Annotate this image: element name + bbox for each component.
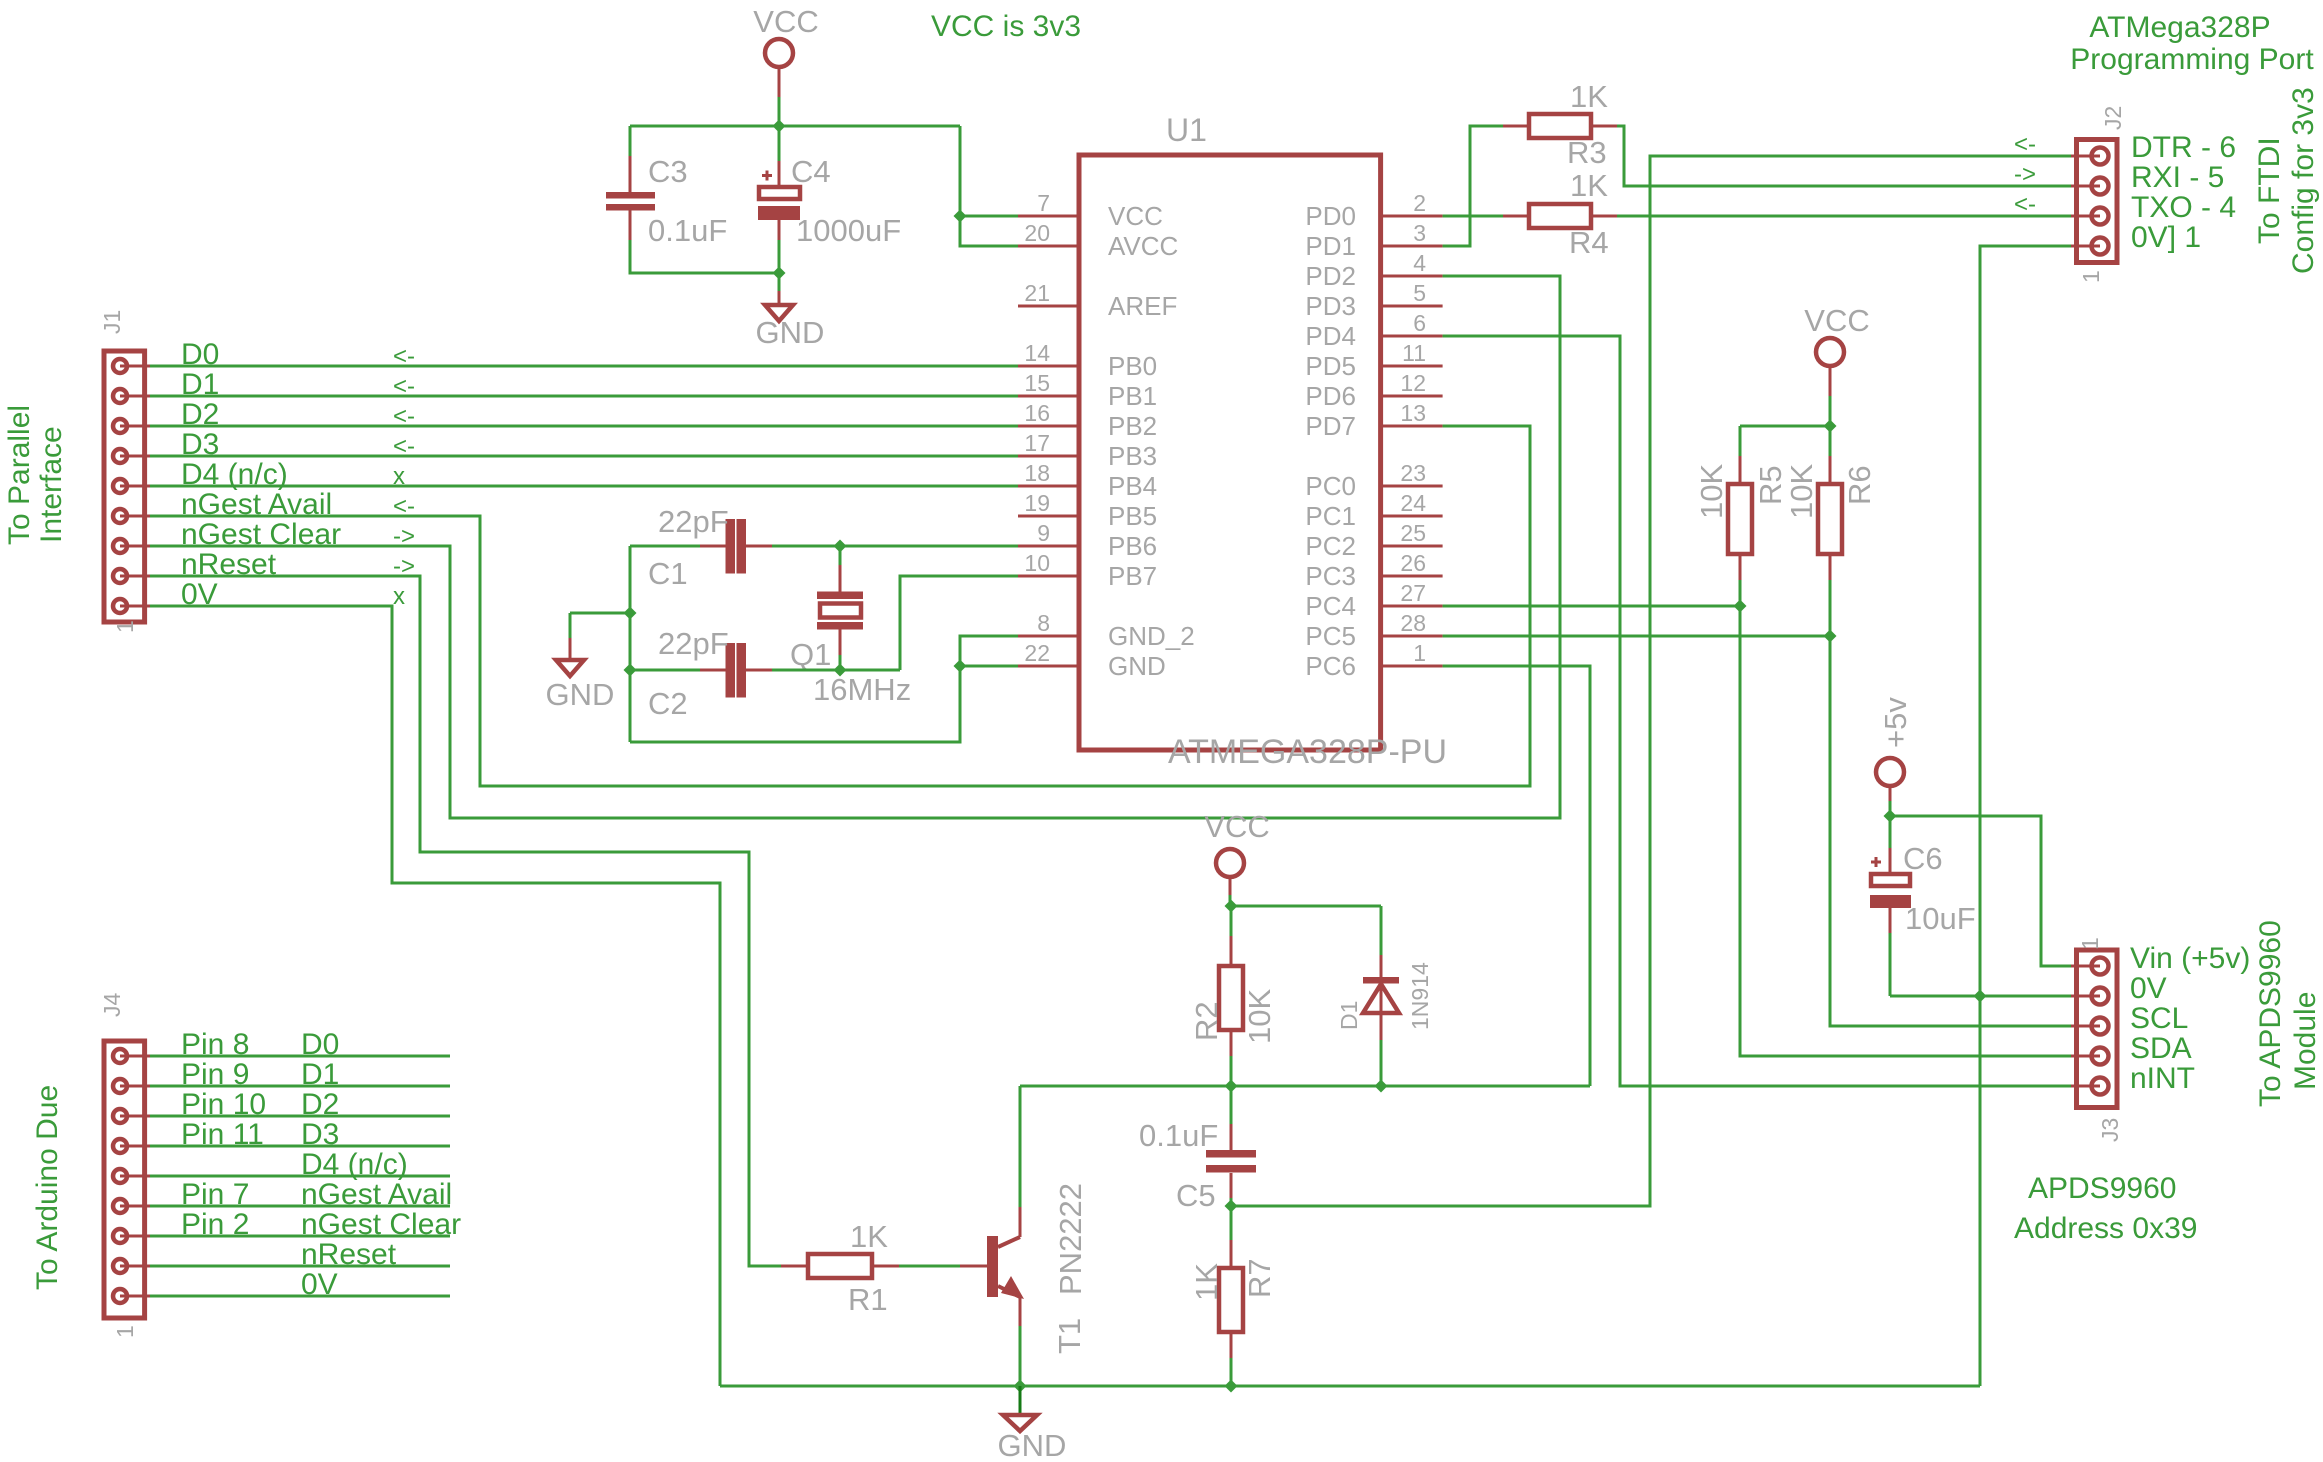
pin +5v stem	[1889, 786, 1892, 802]
IC U1 ATMEGA328P-PU body	[1079, 155, 1381, 750]
svg-text:VCC: VCC	[753, 4, 818, 39]
pin 15 PB1 stub	[1018, 395, 1079, 398]
svg-text:Pin 10: Pin 10	[181, 1088, 266, 1121]
svg-text:J3: J3	[2097, 1118, 2123, 1142]
wire D1 bottom	[1380, 1040, 1383, 1086]
svg-text:APDS9960: APDS9960	[2028, 1172, 2176, 1205]
pin 22 GND stub	[1018, 665, 1079, 668]
wire R2 bottom	[1230, 1056, 1233, 1086]
svg-text:10K: 10K	[1242, 989, 1277, 1044]
svg-text:10: 10	[1024, 550, 1050, 576]
node GND junction (top)	[773, 267, 786, 280]
pin D1 anode stub	[1380, 1013, 1383, 1040]
pin R2 top stub	[1230, 936, 1233, 966]
ground symbol GND (bottom)	[1019, 1386, 1022, 1414]
pin 8 GND_2 stub	[1018, 635, 1079, 638]
svg-text:10uF: 10uF	[1905, 901, 1976, 936]
svg-text:Interface: Interface	[35, 426, 68, 543]
wire J2 0V down to GND rail	[1980, 246, 2071, 1386]
svg-text:GND: GND	[1108, 651, 1166, 681]
pin R6 top stub	[1829, 456, 1832, 484]
pin VCC stem (bottom)	[1229, 877, 1232, 896]
svg-text:PC3: PC3	[1305, 561, 1356, 591]
wire VCC to AVCC pin 20	[960, 126, 1018, 246]
pin R1 right stub	[872, 1265, 899, 1268]
wire R4 to J2 TXO	[1617, 215, 2071, 218]
svg-text:16MHz: 16MHz	[813, 672, 911, 707]
svg-text:7: 7	[1037, 190, 1050, 216]
connector J1 pin nReset	[113, 569, 127, 583]
wire +5v to J3 Vin	[1890, 816, 2071, 966]
svg-text:PD6: PD6	[1305, 381, 1356, 411]
svg-text:RXI - 5: RXI - 5	[2131, 161, 2224, 194]
svg-text:0V: 0V	[2130, 972, 2167, 1005]
wire T1 emitter to GND	[1019, 1326, 1022, 1386]
svg-text:PC6: PC6	[1305, 651, 1356, 681]
svg-text:C1: C1	[648, 556, 688, 591]
node pin8/22 junction	[954, 660, 967, 673]
pin 5 PD3 stub	[1381, 305, 1443, 308]
connector J1 pin D1	[113, 389, 127, 403]
wire VCC stem (mid)	[1829, 396, 1832, 426]
pin 25 PC2 stub	[1381, 545, 1443, 548]
svg-text:J2: J2	[2100, 106, 2126, 130]
svg-text:10K: 10K	[1694, 464, 1729, 519]
svg-text:1: 1	[2078, 270, 2104, 283]
svg-text:GND_2: GND_2	[1108, 621, 1195, 651]
svg-text:21: 21	[1024, 280, 1050, 306]
pin R4 left stub	[1503, 215, 1529, 218]
node R5/R6 VCC junction	[1824, 420, 1837, 433]
svg-text:1000uF: 1000uF	[796, 213, 901, 248]
connector J1 pin D3	[113, 449, 127, 463]
pin R7 bottom stub	[1230, 1332, 1233, 1358]
wire net nGest Avail stub (J4)	[150, 1205, 450, 1208]
svg-text:PD3: PD3	[1305, 291, 1356, 321]
svg-text:5: 5	[1413, 280, 1426, 306]
svg-text:AVCC: AVCC	[1108, 231, 1178, 261]
pin R3 right stub	[1591, 125, 1617, 128]
connector J3 body	[2077, 950, 2118, 1108]
capacitor C1 22pF	[726, 519, 736, 574]
pin 13 PD7 stub	[1381, 425, 1443, 428]
connector J2 pin at y=246	[2092, 238, 2109, 255]
connector J1 pin D4 (n/c)	[113, 479, 127, 493]
pin 1 PC6 stub	[1381, 665, 1443, 668]
pin 18 PB4 stub	[1018, 485, 1079, 488]
svg-text:1: 1	[112, 620, 138, 633]
node SCL junction	[1824, 630, 1837, 643]
svg-text:PC1: PC1	[1305, 501, 1356, 531]
svg-text:PB1: PB1	[1108, 381, 1157, 411]
svg-text:SDA: SDA	[2130, 1032, 2192, 1065]
capacitor C6 10uF (polarized)	[1871, 874, 1910, 886]
resistor R4 1K	[1529, 204, 1591, 228]
connector J2 pin at y=186	[2092, 178, 2109, 195]
pin R1 left stub	[781, 1265, 808, 1268]
pin 16 PB2 stub	[1018, 425, 1079, 428]
svg-text:14: 14	[1024, 340, 1050, 366]
node D1/reset junction	[1375, 1080, 1388, 1093]
svg-text:Config for 3v3: Config for 3v3	[2287, 87, 2320, 274]
svg-text:TXO - 4: TXO - 4	[2131, 191, 2236, 224]
power symbol VCC (bottom)	[1216, 849, 1244, 877]
node VCC junction (reset)	[1225, 900, 1238, 913]
node C5/R7/DTR junction	[1225, 1200, 1238, 1213]
wire R5 top	[1739, 426, 1742, 456]
svg-text:3: 3	[1413, 220, 1426, 246]
connector J4 pin D0	[113, 1049, 127, 1063]
svg-text:PC5: PC5	[1305, 621, 1356, 651]
node GND tap junction	[624, 607, 637, 620]
wire PC6 pin1 to reset rail	[1443, 666, 1590, 1086]
connector J4 pin D4 (n/c)	[113, 1169, 127, 1183]
wire net D4 (n/c) J1 to U1	[150, 485, 1018, 488]
svg-text:24: 24	[1400, 490, 1426, 516]
pin 17 PB3 stub	[1018, 455, 1079, 458]
svg-text:D0: D0	[181, 338, 219, 371]
wire C1 to PB6 pin 9	[772, 545, 1018, 548]
svg-text:->: ->	[2014, 161, 2036, 188]
svg-text:PB7: PB7	[1108, 561, 1157, 591]
pin C4 top stub	[778, 161, 781, 187]
wire C2 left	[630, 669, 700, 672]
capacitor C5 0.1uF	[1206, 1150, 1256, 1158]
connector J3 pin at y=966	[2092, 958, 2109, 975]
svg-text:0.1uF: 0.1uF	[1139, 1118, 1218, 1153]
svg-text:+5v: +5v	[1878, 697, 1913, 748]
pin VCC stem (mid)	[1829, 366, 1832, 397]
svg-text:Pin 7: Pin 7	[181, 1178, 249, 1211]
svg-text:C4: C4	[791, 154, 831, 189]
pin R2 bottom stub	[1230, 1030, 1233, 1056]
svg-text:28: 28	[1400, 610, 1426, 636]
wire T1 collector to reset rail	[1019, 1086, 1022, 1207]
pin 26 PC3 stub	[1381, 575, 1443, 578]
connector J4 pin nReset	[113, 1259, 127, 1273]
svg-text:PB0: PB0	[1108, 351, 1157, 381]
svg-text:Module: Module	[2289, 992, 2322, 1090]
svg-text:R3: R3	[1567, 135, 1607, 170]
svg-text:U1: U1	[1166, 112, 1207, 148]
svg-text:J1: J1	[99, 310, 125, 334]
svg-text:25: 25	[1400, 520, 1426, 546]
svg-text:nGest Clear: nGest Clear	[301, 1208, 461, 1241]
resistor R1 1K	[808, 1254, 872, 1278]
svg-text:1: 1	[1413, 640, 1426, 666]
svg-text:R5: R5	[1753, 465, 1788, 505]
svg-text:Programming Port: Programming Port	[2070, 43, 2314, 76]
svg-text:PB6: PB6	[1108, 531, 1157, 561]
svg-text:<-: <-	[393, 403, 415, 430]
wire R1 to T1 base	[899, 1265, 960, 1268]
wire to GND (top)	[778, 273, 781, 291]
svg-text:J4: J4	[99, 993, 125, 1018]
wire SCL to J3	[1830, 636, 2071, 1026]
resistor R7 1K	[1219, 1268, 1243, 1332]
svg-text:6: 6	[1413, 310, 1426, 336]
svg-text:D4 (n/c): D4 (n/c)	[181, 458, 288, 491]
svg-text:PD1: PD1	[1305, 231, 1356, 261]
pin C2 left stub	[700, 669, 726, 672]
pin 27 PC4 stub	[1381, 605, 1443, 608]
svg-text:1: 1	[2077, 937, 2103, 950]
resistor R2 10K	[1219, 966, 1243, 1030]
capacitor C2 22pF	[726, 643, 736, 698]
svg-text:2: 2	[1413, 190, 1426, 216]
resistor R5 10K	[1728, 484, 1752, 554]
svg-text:<-: <-	[2014, 191, 2036, 218]
svg-text:1K: 1K	[1570, 168, 1608, 203]
svg-text:Vin (+5v): Vin (+5v)	[2130, 942, 2250, 975]
svg-text:PC0: PC0	[1305, 471, 1356, 501]
wire R6 bottom	[1829, 580, 1832, 636]
power symbol VCC (top)	[765, 39, 793, 67]
pin C1 left stub	[700, 545, 726, 548]
svg-text:23: 23	[1400, 460, 1426, 486]
svg-text:R2: R2	[1189, 1001, 1224, 1041]
wire net D0 J1 to U1	[150, 365, 1018, 368]
wire to GND_2 pin 8	[960, 636, 1018, 666]
svg-text:VCC is 3v3: VCC is 3v3	[931, 10, 1081, 43]
pin GND stub (crystal)	[569, 638, 572, 659]
connector J1 pin nGest Avail	[113, 509, 127, 523]
wire net 0V J1 to GND rail	[150, 606, 720, 1386]
wire R3 to J2 RXI	[1617, 126, 2071, 186]
pin 23 PC0 stub	[1381, 485, 1443, 488]
svg-text:VCC: VCC	[1204, 809, 1269, 844]
wire C5 bottom	[1230, 1198, 1233, 1206]
svg-text:13: 13	[1400, 400, 1426, 426]
svg-text:20: 20	[1024, 220, 1050, 246]
svg-text:15: 15	[1024, 370, 1050, 396]
node XTAL1 junction	[834, 540, 847, 553]
node +5v junction	[1884, 810, 1897, 823]
wire net D1 J1 to U1	[150, 395, 1018, 398]
wire to GND pin 22	[960, 665, 1018, 668]
pin C6 bottom stub	[1889, 908, 1892, 933]
connector J2 pin at y=156	[2092, 148, 2109, 165]
svg-text:8: 8	[1037, 610, 1050, 636]
svg-text:D2: D2	[181, 398, 219, 431]
svg-text:1: 1	[112, 1325, 138, 1338]
node XTAL2 junction	[834, 664, 847, 677]
connector J3 pin at y=996	[2092, 988, 2109, 1005]
connector J4 pin 0V	[113, 1289, 127, 1303]
svg-text:10K: 10K	[1784, 464, 1819, 519]
connector J4 pin D3	[113, 1139, 127, 1153]
svg-text:PC4: PC4	[1305, 591, 1356, 621]
svg-text:D3: D3	[301, 1118, 339, 1151]
wire C6 bottom	[1889, 933, 1892, 996]
svg-text:PD5: PD5	[1305, 351, 1356, 381]
wire VCC to D1	[1231, 905, 1381, 908]
svg-text:26: 26	[1400, 550, 1426, 576]
node VCC junction	[773, 120, 786, 133]
wire R7 top	[1230, 1206, 1233, 1240]
pin R5 bottom stub	[1739, 554, 1742, 580]
pin 3 PD1 stub	[1381, 245, 1443, 248]
svg-text:12: 12	[1400, 370, 1426, 396]
connector J2 pin at y=216	[2092, 208, 2109, 225]
wire net nGest Clear stub (J4)	[150, 1235, 450, 1238]
connector J4 pin D1	[113, 1079, 127, 1093]
pin R6 bottom stub	[1829, 554, 1832, 580]
svg-text:D1: D1	[301, 1058, 339, 1091]
wire PD4 pin6 nINT to J3	[1443, 336, 2071, 1086]
pin R5 top stub	[1739, 456, 1742, 484]
svg-text:R1: R1	[848, 1282, 888, 1317]
connector J1 pin D2	[113, 419, 127, 433]
pin crystal bottom stub	[839, 630, 842, 656]
svg-text:Q1: Q1	[790, 637, 831, 672]
node R2/reset junction	[1225, 1080, 1238, 1093]
wire C1 left	[630, 545, 700, 548]
transistor T1 PN2222	[987, 1236, 998, 1297]
wire DTR to C5	[1231, 156, 2071, 1206]
resistor R3 1K	[1529, 114, 1591, 138]
svg-text:VCC: VCC	[1108, 201, 1163, 231]
svg-text:D1: D1	[181, 368, 219, 401]
wire net nGest Avail J1 to PD7	[150, 426, 1530, 786]
wire net D2 J1 to U1	[150, 425, 1018, 428]
svg-text:C3: C3	[648, 154, 688, 189]
pin 6 PD4 stub	[1381, 335, 1443, 338]
svg-text:D3: D3	[181, 428, 219, 461]
resistor R6 10K	[1818, 484, 1842, 554]
connector J4 pin nGest Avail	[113, 1199, 127, 1213]
capacitor C4 (polarized)	[759, 187, 800, 199]
svg-text:R4: R4	[1569, 225, 1609, 260]
svg-text:Pin 9: Pin 9	[181, 1058, 249, 1091]
node C2 junction	[624, 664, 637, 677]
wire to PB7 pin 10	[900, 576, 1018, 670]
svg-text:Address 0x39: Address 0x39	[2014, 1212, 2197, 1245]
wire C5 top	[1230, 1086, 1233, 1124]
svg-text:9: 9	[1037, 520, 1050, 546]
pin C3 bottom stub	[629, 211, 632, 241]
wire VCC stem (bottom)	[1229, 895, 1232, 906]
pin 7 VCC stub	[1018, 215, 1079, 218]
svg-text:1K: 1K	[1570, 79, 1608, 114]
wire VCC rail	[630, 125, 960, 128]
wire 0V to J3	[1890, 995, 2071, 998]
svg-text:AREF: AREF	[1108, 291, 1177, 321]
svg-text:<-: <-	[393, 373, 415, 400]
connector J1 pin 0V	[113, 599, 127, 613]
pin 9 PB6 stub	[1018, 545, 1079, 548]
crystal Q1	[817, 592, 863, 600]
svg-text:4: 4	[1413, 250, 1426, 276]
pin C1 right stub	[746, 545, 772, 548]
connector J3 pin at y=1086	[2092, 1078, 2109, 1095]
wire D1 top	[1380, 906, 1383, 955]
wire net D2 stub (J4)	[150, 1115, 450, 1118]
wire net D3 J1 to U1	[150, 455, 1018, 458]
pin C5 top stub	[1230, 1124, 1233, 1150]
wire net D0 stub (J4)	[150, 1055, 450, 1058]
svg-text:D1: D1	[1336, 1001, 1362, 1030]
svg-text:22: 22	[1024, 640, 1050, 666]
svg-text:GND: GND	[756, 315, 825, 350]
pin C2 right stub	[746, 669, 772, 672]
wire SDA to J3	[1740, 606, 2071, 1056]
pin C6 top stub	[1889, 848, 1892, 874]
wire GND return to pins 8/22	[630, 666, 960, 742]
node emitter/GND junction	[1014, 1380, 1027, 1393]
wire PC4 pin27 SDA	[1443, 605, 1740, 608]
pin T1 collector stub	[1019, 1207, 1022, 1237]
connector J2 body	[2077, 140, 2118, 263]
wire nRESET rail	[1020, 1085, 1590, 1088]
pin C4 bottom stub	[778, 220, 781, 240]
connector J1 pin D0	[113, 359, 127, 373]
wire net nReset stub (J4)	[150, 1265, 450, 1268]
svg-text:R7: R7	[1242, 1258, 1277, 1298]
svg-text:DTR - 6: DTR - 6	[2131, 131, 2236, 164]
connector J3 pin at y=1056	[2092, 1048, 2109, 1065]
svg-text:19: 19	[1024, 490, 1050, 516]
svg-text:0V: 0V	[301, 1268, 338, 1301]
pin GND stub (top)	[778, 291, 781, 304]
wire R7 bottom	[1230, 1358, 1233, 1386]
svg-text:PC2: PC2	[1305, 531, 1356, 561]
wire VCC stem	[778, 97, 781, 126]
pin 28 PC5 stub	[1381, 635, 1443, 638]
wire net D4 (n/c) stub (J4)	[150, 1175, 450, 1178]
svg-text:VCC: VCC	[1804, 303, 1869, 338]
pin T1 base stub	[960, 1265, 987, 1268]
wire to GND symbol (crystal)	[570, 612, 630, 615]
wire VCC stem (pin)	[778, 67, 781, 98]
pin R4 right stub	[1591, 215, 1617, 218]
diode D1 1N914	[1363, 977, 1399, 984]
svg-text:C6: C6	[1903, 841, 1943, 876]
connector J4 pin D2	[113, 1109, 127, 1123]
pin C3 top stub	[629, 156, 632, 192]
wire PC5 pin28 SCL	[1443, 635, 1830, 638]
pin 2 PD0 stub	[1381, 215, 1443, 218]
wire GND rail (bottom)	[720, 1385, 1980, 1388]
svg-text:D0: D0	[301, 1028, 339, 1061]
svg-text:PD0: PD0	[1305, 201, 1356, 231]
svg-text:PD4: PD4	[1305, 321, 1356, 351]
wire crystal bottom	[839, 655, 842, 670]
svg-text:<-: <-	[393, 433, 415, 460]
svg-text:0V] 1: 0V] 1	[2131, 221, 2201, 254]
svg-text:22pF: 22pF	[658, 626, 729, 661]
wire net D3 stub (J4)	[150, 1145, 450, 1148]
pin crystal top stub	[839, 565, 842, 592]
connector J3 pin at y=1026	[2092, 1018, 2109, 1035]
pin 24 PC1 stub	[1381, 515, 1443, 518]
wire R5 bottom	[1739, 580, 1742, 606]
svg-text:x: x	[393, 583, 405, 610]
wire C2 to riser	[772, 669, 900, 672]
svg-text:PB4: PB4	[1108, 471, 1157, 501]
svg-text:To FTDI: To FTDI	[2253, 137, 2286, 244]
wire PD0 pin2 to R4	[1443, 215, 1503, 218]
pin 11 PD5 stub	[1381, 365, 1443, 368]
svg-text:Pin 2: Pin 2	[181, 1208, 249, 1241]
power symbol +5v	[1876, 758, 1904, 786]
svg-text:1K: 1K	[1189, 1263, 1224, 1301]
svg-text:18: 18	[1024, 460, 1050, 486]
svg-text:D2: D2	[301, 1088, 339, 1121]
pin 10 PB7 stub	[1018, 575, 1079, 578]
svg-text:22pF: 22pF	[658, 504, 729, 539]
wire net nGest Clear J1 to PD2	[150, 276, 1560, 818]
